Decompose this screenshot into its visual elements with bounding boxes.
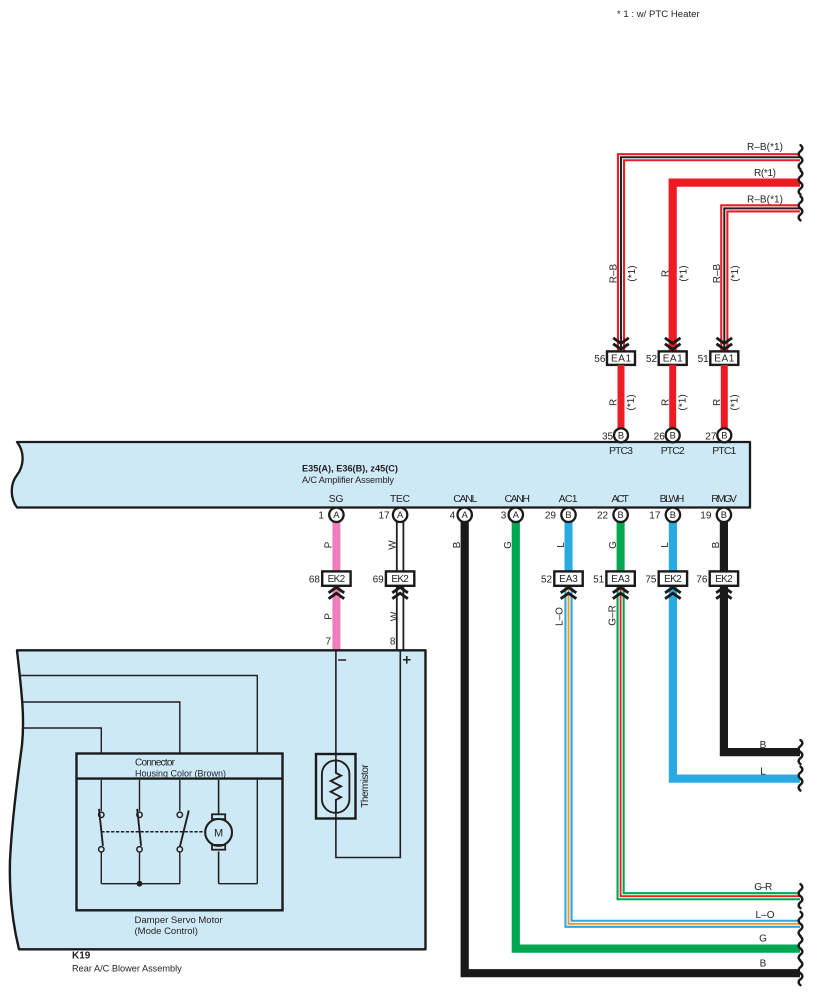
wire internal from left edge to servo col5 xyxy=(20,676,257,755)
connector EK2 pin 68 xyxy=(309,571,351,585)
wire color labels row2 xyxy=(323,605,618,626)
svg-text:27: 27 xyxy=(705,431,717,442)
svg-text:4: 4 xyxy=(450,510,456,521)
svg-text:AC1: AC1 xyxy=(559,493,578,505)
svg-text:L: L xyxy=(556,542,567,548)
svg-text:BLWH: BLWH xyxy=(660,493,685,505)
svg-text:TEC: TEC xyxy=(390,493,411,505)
svg-text:8: 8 xyxy=(390,637,396,648)
svg-text:ACT: ACT xyxy=(611,493,629,505)
svg-text:3: 3 xyxy=(501,510,507,521)
thermistor box xyxy=(316,754,356,819)
arrow EK2 68 xyxy=(329,587,345,598)
wire B RMGV vertical+horizontal xyxy=(724,518,800,752)
label minus pin7 xyxy=(338,659,346,661)
svg-text:L–O: L–O xyxy=(756,910,775,921)
svg-text:7: 7 xyxy=(325,637,331,648)
arrow into EA1 56 xyxy=(613,338,629,349)
brace L-O xyxy=(799,912,803,936)
K19 rear A/C blower assembly box xyxy=(10,650,426,949)
arrow EK2 76 xyxy=(716,587,732,598)
svg-text:69: 69 xyxy=(373,574,385,585)
wire R-B(*1) to EA1 51 xyxy=(724,208,800,351)
pin 19 B RMGV xyxy=(700,508,731,522)
svg-text:Thermistor: Thermistor xyxy=(360,764,371,808)
svg-text:R: R xyxy=(609,399,620,406)
wire G CANH vertical+horizontal xyxy=(516,518,800,949)
switch 1 xyxy=(99,780,104,884)
arrow EK2 69 xyxy=(392,587,408,598)
svg-text:L–O: L–O xyxy=(555,607,566,626)
svg-text:22: 22 xyxy=(597,510,609,521)
wire R to PTC3 xyxy=(618,365,625,430)
bus switches bottom xyxy=(101,883,180,885)
svg-text:(*1): (*1) xyxy=(679,265,690,281)
svg-text:R–B: R–B xyxy=(609,263,620,283)
svg-text:Housing Color (Brown): Housing Color (Brown) xyxy=(135,769,226,779)
svg-text:B: B xyxy=(617,510,623,520)
svg-text:(*1): (*1) xyxy=(627,265,638,281)
connector EK2 pin 76 xyxy=(696,571,738,585)
pin PTC2 circle 26 B xyxy=(654,428,680,442)
svg-text:52: 52 xyxy=(541,574,553,585)
junction dot xyxy=(137,881,143,887)
wire servo col5 vertical xyxy=(256,780,258,884)
wire R to PTC2 xyxy=(669,365,676,430)
pin 22 B ACT xyxy=(597,508,628,522)
svg-text:PTC1: PTC1 xyxy=(712,445,736,457)
svg-text:EK2: EK2 xyxy=(391,574,409,585)
svg-text:B: B xyxy=(565,510,571,520)
svg-text:(*1): (*1) xyxy=(729,394,740,410)
svg-text:G–R: G–R xyxy=(754,882,772,893)
wire internal from left edge to servo col1 xyxy=(23,728,101,754)
svg-text:E35(A), E36(B), z45(C): E35(A), E36(B), z45(C) xyxy=(302,464,398,474)
svg-text:B: B xyxy=(670,431,676,441)
svg-text:K19: K19 xyxy=(72,951,91,962)
svg-text:G: G xyxy=(759,934,767,945)
svg-text:B: B xyxy=(670,510,676,520)
arrow into EA1 52 xyxy=(665,338,681,349)
svg-text:R: R xyxy=(660,399,671,406)
svg-text:PTC2: PTC2 xyxy=(661,445,685,457)
pin 3 A CANH xyxy=(501,508,523,522)
connector EA3 pin 52 xyxy=(541,571,583,585)
connector EA1 pin 51 xyxy=(698,351,739,365)
brace G-R xyxy=(799,884,803,908)
svg-text:EK2: EK2 xyxy=(715,574,733,585)
svg-text:51: 51 xyxy=(698,354,710,365)
brace CANL xyxy=(799,961,803,985)
svg-text:76: 76 xyxy=(696,574,708,585)
pin PTC3 circle 35 B xyxy=(602,428,628,442)
svg-text:W: W xyxy=(387,540,398,550)
pin 17 A TEC xyxy=(378,508,407,522)
wire W TEC vertical xyxy=(396,518,404,650)
svg-text:75: 75 xyxy=(645,574,657,585)
svg-text:51: 51 xyxy=(593,574,605,585)
svg-text:EA3: EA3 xyxy=(559,574,578,585)
connector EK2 pin 69 xyxy=(373,571,415,585)
svg-text:CANL: CANL xyxy=(453,493,477,505)
svg-text:EA1: EA1 xyxy=(611,354,631,365)
wire color labels row1 xyxy=(324,540,722,550)
svg-text:B: B xyxy=(711,541,722,548)
svg-text:M: M xyxy=(214,827,223,839)
svg-text:26: 26 xyxy=(654,431,666,442)
svg-text:RMGV: RMGV xyxy=(711,493,737,505)
connector EA1 pin 52 xyxy=(646,351,687,365)
switch 2 xyxy=(137,780,142,884)
wire R to PTC1 xyxy=(721,365,728,430)
dashed link line xyxy=(101,831,204,833)
switch 3 xyxy=(177,780,189,884)
svg-text:A: A xyxy=(513,510,520,520)
svg-text:B: B xyxy=(618,431,624,441)
bus motor bottom xyxy=(219,883,258,885)
svg-text:Rear A/C Blower Assembly: Rear A/C Blower Assembly xyxy=(72,964,182,974)
pin PTC1 circle 27 B xyxy=(705,428,731,442)
svg-text:Damper Servo Motor: Damper Servo Motor xyxy=(135,915,223,926)
wire G ACT upper xyxy=(617,518,625,578)
svg-text:R(*1): R(*1) xyxy=(754,168,776,179)
svg-text:56: 56 xyxy=(594,354,606,365)
svg-text:A: A xyxy=(333,510,340,520)
svg-text:19: 19 xyxy=(700,510,712,521)
svg-text:(*1): (*1) xyxy=(678,394,689,410)
svg-text:52: 52 xyxy=(646,354,658,365)
svg-text:G–R: G–R xyxy=(608,605,619,626)
svg-text:R: R xyxy=(661,270,672,277)
svg-text:35: 35 xyxy=(602,431,614,442)
svg-text:R–B(*1): R–B(*1) xyxy=(747,195,783,206)
brace wire3 xyxy=(799,196,803,220)
pin 29 B AC1 xyxy=(545,508,576,522)
wire L BLWH vertical+horizontal xyxy=(673,518,800,779)
pin 1 A SG xyxy=(318,508,343,522)
damper servo motor box xyxy=(77,754,283,911)
arrow into EA1 51 xyxy=(717,338,733,349)
arrow EA3 52 xyxy=(561,587,577,598)
motor M xyxy=(205,780,232,884)
svg-text:B: B xyxy=(760,740,767,751)
svg-text:(Mode Control): (Mode Control) xyxy=(135,926,198,937)
wire B CANL vertical+horizontal xyxy=(465,518,800,973)
svg-text:G: G xyxy=(608,541,619,549)
pin 17 B BLWH xyxy=(649,508,680,522)
wire G-R ACT lower xyxy=(621,578,800,896)
svg-text:68: 68 xyxy=(309,574,321,585)
svg-text:P: P xyxy=(323,613,334,620)
brace wire2 xyxy=(799,171,803,195)
svg-text:EA1: EA1 xyxy=(714,354,734,365)
svg-text:EK2: EK2 xyxy=(664,574,682,585)
svg-text:G: G xyxy=(503,541,514,549)
A/C amplifier assembly box E35/E36/z45 xyxy=(12,442,750,508)
pin 4 A CANL xyxy=(450,508,472,522)
brace BLWH xyxy=(799,767,803,791)
svg-text:A: A xyxy=(397,510,404,520)
thermistor wire loop pins 7-8 xyxy=(336,652,400,858)
wire R-B(*1) to EA1 56 xyxy=(621,157,800,351)
svg-text:P: P xyxy=(324,541,335,548)
connector EA3 pin 51 xyxy=(593,571,635,585)
svg-text:1: 1 xyxy=(318,510,324,521)
svg-text:SG: SG xyxy=(329,493,344,505)
label plus pin8 xyxy=(403,656,411,664)
svg-text:A: A xyxy=(462,510,469,520)
svg-text:(*1): (*1) xyxy=(730,265,741,281)
svg-text:17: 17 xyxy=(378,510,390,521)
svg-text:17: 17 xyxy=(649,510,661,521)
svg-text:CANH: CANH xyxy=(504,493,530,505)
wire L AC1 upper xyxy=(565,518,573,578)
arrow EK2 75 xyxy=(665,587,681,598)
svg-text:Connector: Connector xyxy=(135,757,176,768)
svg-text:W: W xyxy=(389,611,400,621)
svg-text:R–B: R–B xyxy=(712,263,723,283)
svg-text:A/C Amplifier Assembly: A/C Amplifier Assembly xyxy=(302,475,394,485)
svg-text:L: L xyxy=(760,767,766,778)
svg-text:PTC3: PTC3 xyxy=(609,445,633,457)
connector EK2 pin 75 xyxy=(645,571,687,585)
svg-text:29: 29 xyxy=(545,510,557,521)
svg-text:* 1 : w/ PTC Heater: * 1 : w/ PTC Heater xyxy=(617,9,700,20)
brace wire1 xyxy=(799,145,803,169)
svg-text:(*1): (*1) xyxy=(626,394,637,410)
svg-text:EA1: EA1 xyxy=(663,354,683,365)
svg-text:L: L xyxy=(660,542,671,548)
wire L-O AC1 lower xyxy=(569,578,801,924)
wire R(*1) to EA1 52 xyxy=(673,183,800,352)
svg-text:B: B xyxy=(760,959,767,970)
svg-text:B: B xyxy=(452,541,463,548)
connector EA1 pin 56 xyxy=(594,351,635,365)
brace RMGV xyxy=(799,740,803,764)
svg-text:EA3: EA3 xyxy=(611,574,630,585)
svg-text:R: R xyxy=(712,399,723,406)
wire internal from left edge to servo col3 xyxy=(22,702,180,754)
svg-text:B: B xyxy=(721,431,727,441)
wire P SG vertical xyxy=(332,518,340,650)
arrow EA3 51 xyxy=(613,587,629,598)
svg-text:EK2: EK2 xyxy=(328,574,346,585)
svg-text:B: B xyxy=(721,510,727,520)
svg-text:R–B(*1): R–B(*1) xyxy=(747,142,783,153)
brace CANH xyxy=(799,937,803,961)
